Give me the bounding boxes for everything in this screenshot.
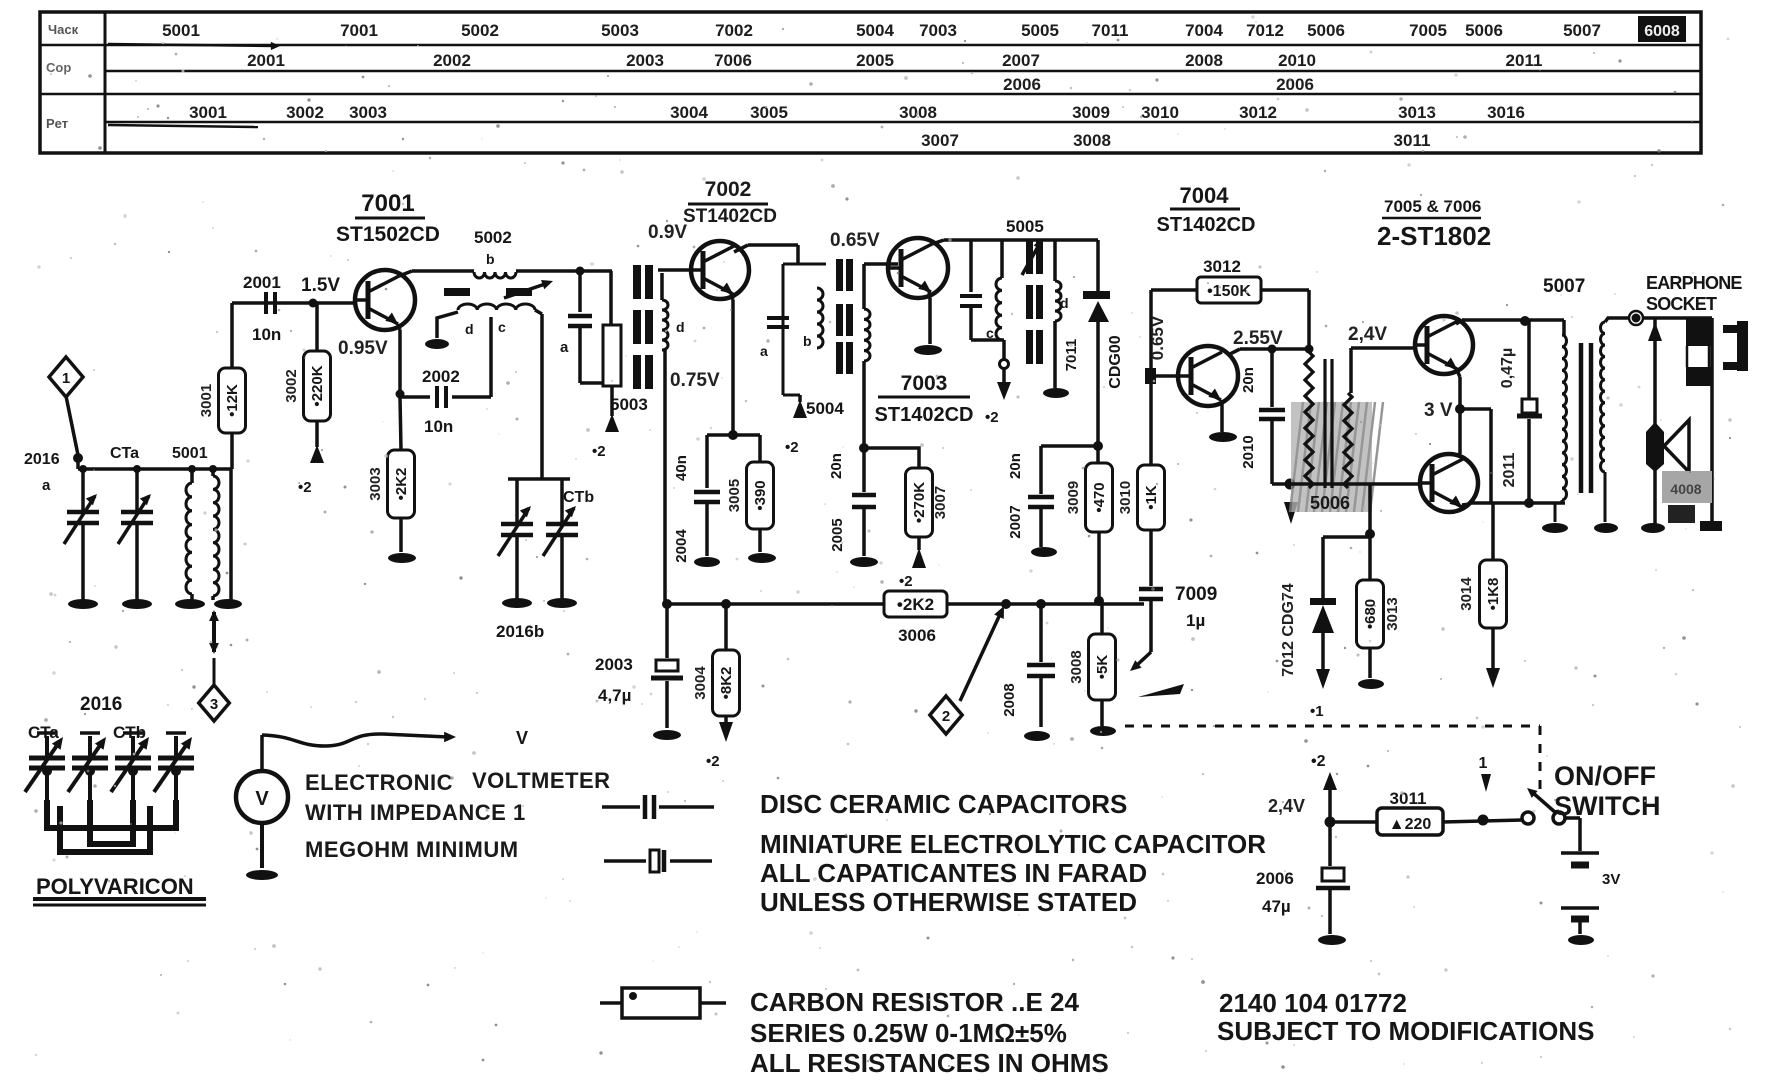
svg-text:7003: 7003: [901, 372, 948, 395]
svg-text:DISC CERAMIC CAPACITORS: DISC CERAMIC CAPACITORS: [760, 789, 1127, 819]
svg-text:3013: 3013: [1398, 103, 1436, 122]
svg-text:a: a: [42, 477, 51, 494]
svg-text:•2: •2: [592, 443, 606, 460]
svg-text:2,4V: 2,4V: [1268, 796, 1305, 816]
svg-text:2140 104 01772: 2140 104 01772: [1219, 988, 1407, 1018]
svg-text:2006: 2006: [1003, 75, 1041, 94]
svg-text:3 V: 3 V: [1424, 400, 1453, 421]
svg-text:3009: 3009: [1072, 103, 1110, 122]
svg-text:47µ: 47µ: [1262, 897, 1291, 916]
svg-text:Cор: Cор: [46, 60, 71, 75]
svg-text:20n: 20n: [1240, 367, 1257, 393]
svg-text:10n: 10n: [424, 417, 453, 436]
svg-text:•2K2: •2K2: [897, 595, 934, 614]
svg-text:3005: 3005: [726, 479, 743, 512]
svg-text:5001: 5001: [172, 445, 208, 462]
svg-text:a: a: [560, 339, 569, 356]
svg-text:2001: 2001: [243, 273, 281, 292]
svg-text:3010: 3010: [1117, 481, 1134, 514]
svg-text:V: V: [516, 728, 528, 748]
svg-text:2016b: 2016b: [496, 622, 544, 641]
svg-text:3: 3: [210, 696, 218, 713]
svg-text:EARPHONE: EARPHONE: [1646, 273, 1742, 293]
svg-text:CTa: CTa: [110, 445, 139, 462]
svg-text:2016: 2016: [24, 451, 60, 468]
svg-text:ST1402CD: ST1402CD: [875, 404, 974, 426]
svg-text:ST1502CD: ST1502CD: [336, 223, 440, 246]
svg-text:2003: 2003: [626, 51, 664, 70]
svg-text:VOLTMETER: VOLTMETER: [472, 768, 611, 793]
svg-text:MINIATURE ELECTROLYTIC CAPACIT: MINIATURE ELECTROLYTIC CAPACITOR: [760, 829, 1266, 859]
svg-text:3010: 3010: [1141, 103, 1179, 122]
svg-text:3005: 3005: [750, 103, 788, 122]
svg-text:SOCKET: SOCKET: [1646, 294, 1717, 314]
svg-text:2002: 2002: [422, 367, 460, 386]
svg-text:5006: 5006: [1307, 21, 1345, 40]
svg-text:5006: 5006: [1465, 21, 1503, 40]
svg-text:4008: 4008: [1670, 481, 1701, 497]
svg-text:5006: 5006: [1310, 493, 1350, 513]
svg-text:•2K2: •2K2: [393, 468, 410, 501]
svg-text:ALL CAPATICANTES IN FARAD: ALL CAPATICANTES IN FARAD: [760, 858, 1147, 888]
svg-text:3008: 3008: [1068, 650, 1085, 683]
svg-text:MEGOHM MINIMUM: MEGOHM MINIMUM: [305, 837, 519, 862]
svg-text:POLYVARICON: POLYVARICON: [36, 874, 194, 899]
svg-text:2006: 2006: [1256, 869, 1294, 888]
svg-text:2010: 2010: [1240, 435, 1257, 468]
svg-text:3002: 3002: [283, 369, 300, 402]
svg-text:2,4V: 2,4V: [1348, 324, 1387, 345]
svg-text:•2: •2: [985, 409, 999, 426]
svg-text:3011: 3011: [1394, 131, 1431, 150]
svg-text:UNLESS OTHERWISE STATED: UNLESS OTHERWISE STATED: [760, 887, 1137, 917]
svg-text:2010: 2010: [1278, 51, 1316, 70]
svg-text:7006: 7006: [714, 51, 752, 70]
svg-text:2.55V: 2.55V: [1233, 328, 1283, 349]
svg-text:6008: 6008: [1644, 23, 1680, 40]
svg-text:•390: •390: [752, 480, 769, 510]
svg-text:d: d: [1060, 295, 1069, 311]
svg-text:2011: 2011: [1501, 453, 1518, 488]
svg-text:2008: 2008: [1001, 683, 1018, 716]
svg-text:0.75V: 0.75V: [670, 370, 720, 391]
svg-text:7011: 7011: [1092, 21, 1129, 40]
svg-text:7001: 7001: [361, 190, 414, 217]
svg-text:3V: 3V: [1602, 871, 1620, 888]
svg-text:1.5V: 1.5V: [301, 275, 340, 296]
svg-text:•2: •2: [1311, 753, 1326, 770]
svg-text:3012: 3012: [1203, 257, 1241, 276]
svg-text:•2: •2: [706, 753, 720, 770]
svg-text:4,7µ: 4,7µ: [598, 686, 631, 705]
svg-text:2007: 2007: [1007, 505, 1024, 538]
svg-text:0.65V: 0.65V: [1148, 315, 1167, 360]
svg-text:WITH IMPEDANCE 1: WITH IMPEDANCE 1: [305, 800, 526, 825]
svg-text:0,47µ: 0,47µ: [1499, 348, 1516, 388]
svg-text:3001: 3001: [198, 384, 215, 417]
svg-text:3003: 3003: [349, 103, 387, 122]
svg-text:3009: 3009: [1065, 481, 1082, 514]
svg-text:SUBJECT TO MODIFICATIONS: SUBJECT TO MODIFICATIONS: [1217, 1016, 1595, 1046]
svg-text:ON/OFF: ON/OFF: [1554, 761, 1656, 791]
svg-text:Часк: Часк: [48, 22, 79, 37]
svg-text:3004: 3004: [692, 666, 709, 700]
svg-text:0.9V: 0.9V: [648, 222, 687, 243]
svg-text:5004: 5004: [806, 399, 844, 418]
svg-text:b: b: [486, 251, 495, 267]
svg-text:•8K2: •8K2: [718, 667, 735, 700]
svg-text:•1K: •1K: [1143, 485, 1160, 510]
svg-text:•1: •1: [1310, 703, 1324, 720]
svg-text:3003: 3003: [367, 467, 384, 500]
svg-text:3001: 3001: [189, 103, 227, 122]
svg-text:CTb: CTb: [563, 489, 594, 506]
svg-text:7012 CDG74: 7012 CDG74: [1280, 583, 1297, 676]
svg-text:20n: 20n: [828, 453, 845, 479]
svg-text:2005: 2005: [829, 518, 846, 551]
svg-text:•12K: •12K: [224, 384, 241, 417]
svg-text:•2: •2: [899, 573, 913, 590]
svg-text:SWITCH: SWITCH: [1554, 791, 1660, 821]
svg-text:2001: 2001: [247, 51, 285, 70]
svg-text:2004: 2004: [673, 529, 690, 563]
svg-text:b: b: [803, 333, 812, 349]
svg-text:3012: 3012: [1239, 103, 1277, 122]
svg-text:3008: 3008: [1073, 131, 1111, 150]
svg-text:5007: 5007: [1563, 21, 1601, 40]
svg-text:a: a: [760, 343, 768, 359]
svg-text:CDG00: CDG00: [1107, 335, 1124, 388]
svg-text:0.95V: 0.95V: [338, 338, 388, 359]
svg-text:5005: 5005: [1006, 217, 1044, 236]
svg-text:5003: 5003: [601, 21, 639, 40]
svg-text:5003: 5003: [610, 395, 648, 414]
svg-text:V: V: [255, 788, 269, 810]
svg-text:2016: 2016: [80, 694, 122, 715]
svg-text:3007: 3007: [932, 486, 949, 519]
svg-text:•1K8: •1K8: [1485, 578, 1502, 611]
svg-text:7002: 7002: [705, 178, 752, 201]
svg-text:2005: 2005: [856, 51, 894, 70]
svg-text:7012: 7012: [1246, 21, 1284, 40]
svg-text:2011: 2011: [1506, 51, 1543, 70]
svg-text:5002: 5002: [474, 228, 512, 247]
svg-text:CARBON RESISTOR ..E 24: CARBON RESISTOR ..E 24: [750, 987, 1079, 1017]
svg-text:3004: 3004: [670, 103, 708, 122]
svg-text:ST1402CD: ST1402CD: [683, 206, 777, 227]
svg-text:d: d: [676, 319, 685, 335]
svg-text:5001: 5001: [162, 21, 200, 40]
svg-text:SERIES 0.25W 0-1MΩ±5%: SERIES 0.25W 0-1MΩ±5%: [750, 1018, 1067, 1048]
svg-text:2003: 2003: [595, 655, 633, 674]
svg-text:3006: 3006: [898, 626, 936, 645]
svg-text:5002: 5002: [461, 21, 499, 40]
svg-text:▲220: ▲220: [1389, 816, 1432, 833]
svg-text:2008: 2008: [1185, 51, 1223, 70]
svg-text:ALL RESISTANCES IN OHMS: ALL RESISTANCES IN OHMS: [750, 1048, 1109, 1078]
svg-text:7009: 7009: [1175, 584, 1217, 605]
svg-text:3002: 3002: [286, 103, 324, 122]
svg-text:0.65V: 0.65V: [830, 230, 880, 251]
svg-text:7004: 7004: [1185, 21, 1223, 40]
svg-text:•470: •470: [1091, 482, 1108, 512]
svg-text:5005: 5005: [1021, 21, 1059, 40]
svg-text:1µ: 1µ: [1186, 611, 1205, 630]
svg-text:•5K: •5K: [1094, 655, 1111, 680]
svg-text:5007: 5007: [1543, 276, 1585, 297]
svg-text:•2: •2: [785, 439, 799, 456]
svg-text:1: 1: [62, 370, 70, 387]
svg-text:7005 & 7006: 7005 & 7006: [1384, 197, 1481, 216]
svg-text:7004: 7004: [1180, 183, 1230, 208]
svg-text:•2: •2: [298, 479, 312, 496]
svg-text:Pет: Pет: [46, 116, 68, 131]
svg-text:7005: 7005: [1409, 21, 1447, 40]
svg-text:2002: 2002: [433, 51, 471, 70]
svg-text:7001: 7001: [340, 21, 378, 40]
svg-text:•220K: •220K: [309, 365, 326, 406]
svg-text:3013: 3013: [1384, 597, 1401, 630]
svg-text:1: 1: [1479, 755, 1488, 772]
svg-text:40n: 40n: [673, 455, 690, 481]
svg-text:5004: 5004: [856, 21, 894, 40]
svg-text:•680: •680: [1362, 599, 1379, 629]
svg-text:7002: 7002: [715, 21, 753, 40]
svg-text:3016: 3016: [1487, 103, 1525, 122]
svg-text:ELECTRONIC: ELECTRONIC: [305, 770, 453, 795]
svg-text:3008: 3008: [899, 103, 937, 122]
svg-text:3011: 3011: [1390, 789, 1427, 808]
svg-text:3007: 3007: [921, 131, 959, 150]
svg-text:2006: 2006: [1276, 75, 1314, 94]
svg-text:•150K: •150K: [1207, 283, 1251, 300]
svg-text:7003: 7003: [919, 21, 957, 40]
svg-text:d: d: [465, 321, 474, 337]
svg-text:2: 2: [942, 708, 950, 725]
svg-text:2007: 2007: [1002, 51, 1040, 70]
svg-text:20n: 20n: [1007, 453, 1024, 479]
svg-text:3014: 3014: [1458, 577, 1475, 611]
svg-text:2-ST1802: 2-ST1802: [1377, 221, 1491, 251]
svg-text:c: c: [986, 325, 994, 341]
svg-text:10n: 10n: [252, 325, 281, 344]
svg-text:ST1402CD: ST1402CD: [1157, 214, 1256, 236]
svg-text:•270K: •270K: [911, 482, 928, 523]
svg-text:c: c: [498, 319, 506, 335]
